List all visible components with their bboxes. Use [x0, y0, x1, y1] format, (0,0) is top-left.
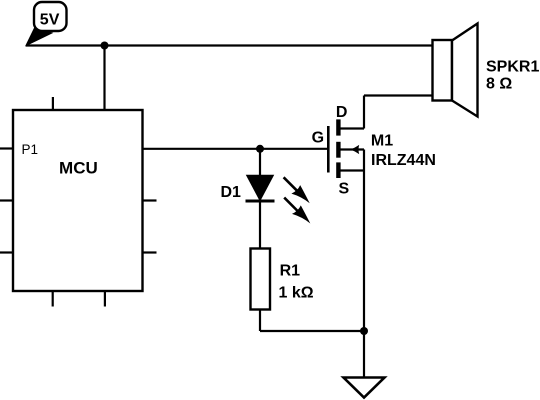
- mosfet M1 body bar: [336, 142, 340, 158]
- wire: drain to speaker: [364, 94, 433, 96]
- svg-text:8 Ω: 8 Ω: [486, 76, 512, 93]
- pin stub: MCU left 3: [0, 251, 13, 253]
- LED D1: [246, 176, 275, 202]
- svg-text:1 kΩ: 1 kΩ: [279, 285, 314, 302]
- speaker SPKR1 body: [433, 40, 453, 101]
- svg-text:SPKR1: SPKR1: [486, 59, 539, 76]
- wire: source down to ground node: [363, 150, 365, 332]
- pin stub: MCU right 3: [143, 251, 157, 253]
- LED D1 emission arrow 1: [284, 177, 310, 203]
- ground: [344, 378, 385, 398]
- wire: ground node down: [363, 331, 365, 378]
- junction: rail / MCU supply: [101, 42, 109, 50]
- wire: rail to MCU top pin: [103, 46, 105, 111]
- junction: gate wire / LED branch: [256, 145, 264, 153]
- mosfet M1 gate line: [327, 126, 330, 173]
- svg-text:D: D: [336, 104, 348, 121]
- LED D1 emission arrow 2: [284, 198, 310, 224]
- svg-text:G: G: [312, 130, 324, 147]
- pin stub: MCU top: [52, 97, 54, 110]
- speaker SPKR1 horn: [452, 24, 478, 117]
- pin stub: MCU bottom 2: [104, 291, 106, 307]
- svg-text:R1: R1: [280, 263, 301, 280]
- svg-text:S: S: [338, 181, 349, 198]
- pin stub: MCU bottom 1: [52, 291, 54, 307]
- svg-text:5V: 5V: [40, 12, 60, 29]
- svg-text:IRLZ44N: IRLZ44N: [371, 152, 436, 169]
- wire: junction to D1 anode: [259, 149, 261, 176]
- wire: MCU output to MOSFET gate: [143, 148, 329, 150]
- wire: source bar to source drop: [340, 169, 364, 171]
- svg-text:P1: P1: [22, 142, 39, 157]
- pin stub: MCU right 2: [143, 199, 157, 201]
- wire: drain riser: [363, 96, 365, 129]
- svg-text:M1: M1: [371, 133, 393, 150]
- resistor R1: [251, 249, 271, 310]
- wire: D1 cathode to R1: [259, 201, 261, 249]
- junction: source / R1 / ground: [360, 327, 368, 335]
- svg-text:D1: D1: [221, 184, 242, 201]
- wire: R1 to ground node: [260, 330, 364, 332]
- mosfet M1 body arrow: [340, 145, 364, 154]
- MCU P1 box: [13, 110, 143, 291]
- svg-text:MCU: MCU: [59, 159, 98, 178]
- wire: 5V top rail: [26, 44, 433, 46]
- pin stub: MCU left 1: [0, 147, 13, 149]
- wire: R1 bottom down: [259, 310, 261, 332]
- mosfet M1 drain bar: [336, 119, 340, 135]
- mosfet M1 source bar: [336, 162, 340, 178]
- power flag 5V: [26, 2, 67, 46]
- wire: drain bar to drain riser: [340, 127, 364, 129]
- pin stub: MCU left 2: [0, 199, 13, 201]
